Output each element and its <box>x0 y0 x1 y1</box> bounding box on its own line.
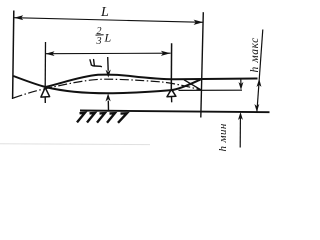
h min lower shaft <box>239 118 241 148</box>
h min arrow at C (pointing down) <box>239 82 244 90</box>
arrowhead L right <box>194 20 204 25</box>
h maks dimension shaft <box>257 30 263 113</box>
support left pin stub <box>44 97 46 103</box>
svg-text:L: L <box>104 31 112 45</box>
support left triangle <box>41 88 50 98</box>
ground hatch 4 <box>107 113 115 123</box>
datum line C <box>179 89 243 91</box>
svg-text:h макс: h макс <box>249 37 261 72</box>
svg-text:h мин: h мин <box>217 123 229 151</box>
extension line left support (2/3L) <box>44 42 46 88</box>
arrowhead 2/3L left <box>45 51 54 56</box>
extension line left end of beam <box>13 11 14 100</box>
h maks arrow at B <box>254 104 259 112</box>
svg-text:3: 3 <box>96 36 102 47</box>
ground hatch 5 <box>118 113 127 123</box>
extension line right support (2/3L) <box>170 43 172 89</box>
prop up arrow <box>107 101 109 111</box>
ground hatch 1 <box>77 113 85 123</box>
h min dimension upper shaft <box>240 79 242 85</box>
svg-text:L: L <box>100 5 109 20</box>
extension line right end (L) <box>201 12 204 117</box>
support right pin stub <box>171 97 173 103</box>
h maks arrow at A <box>257 79 262 87</box>
beam end diagonal right <box>184 80 202 90</box>
arrowhead 2/3L right <box>161 51 171 56</box>
force down arrow <box>107 57 110 71</box>
ground hatch 3 <box>97 113 105 123</box>
force label ch <box>90 60 101 67</box>
dimension line L <box>14 18 203 23</box>
faint scan artifact line <box>0 143 150 146</box>
beam solid top arc <box>45 75 257 87</box>
beam solid pressed curve <box>13 76 201 93</box>
dimension line 2/3 L <box>45 52 170 55</box>
ground line B <box>80 111 270 113</box>
arrowhead L left <box>14 15 23 20</box>
beam axis dash-dot curve <box>13 79 200 98</box>
ground hatch 2 <box>87 113 95 123</box>
h min arrow at B (pointing up) <box>238 112 243 120</box>
support right triangle <box>167 89 176 97</box>
